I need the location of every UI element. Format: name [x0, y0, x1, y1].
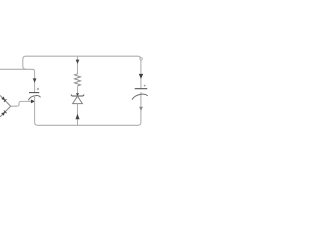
bridge diode mark (bottom edge): [1, 111, 6, 116]
arrowhead down (R1 to D1): [76, 93, 79, 96]
wire: R1 to zener D1: [77, 86, 79, 96]
wire: AC input line to C1 top: [0, 69, 35, 92]
capacitor C1 top plate: [29, 92, 39, 94]
capacitor C1 curved plate: [28, 96, 40, 101]
resistor R1: [75, 74, 81, 86]
arrowhead down (above C1): [33, 78, 37, 82]
arrowhead down (above C2): [139, 74, 143, 79]
arrowhead right (into C1 junction): [31, 100, 35, 104]
zener diode D1 triangle: [73, 96, 83, 103]
arrowhead up (below D1): [75, 114, 79, 120]
wire: top rail with left jog: [23, 56, 141, 88]
wire: resistor branch from top rail: [77, 56, 79, 74]
capacitor C2 curved plate: [132, 94, 148, 99]
bridge rectifier edges: [0, 95, 11, 117]
arrowhead down grey (below C2): [139, 107, 143, 111]
node circle (top right terminal): [140, 58, 142, 60]
capacitor C2 plus sign: [144, 85, 146, 87]
capacitor C2 top plate: [135, 88, 148, 90]
wire: bridge output to C1 junction: [11, 101, 31, 106]
zener diode D1 cathode bar: [71, 95, 84, 96]
wire: C1 bottom + bottom rail + C2 bottom riser: [35, 92, 141, 125]
bridge diode mark (top edge): [1, 97, 6, 102]
capacitor C1 plus sign: [37, 88, 39, 90]
wire: D1 to bottom rail: [77, 104, 79, 126]
arrowhead down (top rail to R1): [76, 60, 80, 64]
